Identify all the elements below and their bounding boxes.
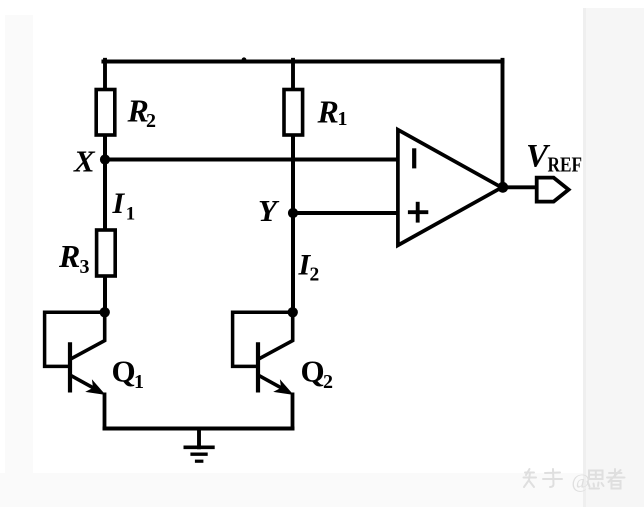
wire top rail xyxy=(103,60,502,64)
label Q1 xyxy=(112,354,145,394)
label I1 xyxy=(112,187,136,225)
transistor Q2 xyxy=(233,311,293,430)
Q1 emitter arrowhead xyxy=(88,382,104,394)
Q1 collector lead xyxy=(71,311,105,359)
wire bottom emitter rail xyxy=(105,427,293,431)
svg-text:Q: Q xyxy=(301,354,325,389)
svg-text:@: @ xyxy=(572,471,590,493)
VREF output pin symbol xyxy=(537,178,569,202)
svg-text:2: 2 xyxy=(323,371,333,393)
op-amp inverting input minus bar xyxy=(412,148,416,168)
wire R2 top stub xyxy=(103,60,107,91)
svg-text:3: 3 xyxy=(80,256,90,278)
wire R1 bottom through node Y to Q2 collector xyxy=(291,134,295,313)
svg-text:1: 1 xyxy=(134,371,144,393)
watermark zhihu xyxy=(524,469,625,489)
Q1 emitter lead xyxy=(71,376,100,392)
svg-text:1: 1 xyxy=(338,108,348,130)
op-amp non-inverting input plus sign xyxy=(408,202,428,223)
label R3 xyxy=(58,238,90,278)
node Q1 collector junction dot xyxy=(100,307,110,317)
wire feedback from rail to op-amp output xyxy=(501,60,505,188)
node junction dot on top rail xyxy=(242,57,247,62)
Q2 emitter lead xyxy=(259,376,288,392)
Q1 base bar xyxy=(68,342,72,392)
resistor R3 xyxy=(97,230,116,276)
svg-text:REF: REF xyxy=(548,153,583,177)
Q2 emitter arrowhead xyxy=(276,382,292,394)
svg-text:Q: Q xyxy=(112,354,136,389)
node op-amp output junction dot xyxy=(497,182,508,193)
Q2 base bar xyxy=(256,342,260,392)
Q2 emitter vertical xyxy=(291,393,295,431)
svg-text:1: 1 xyxy=(126,204,136,225)
wire R1 top stub xyxy=(291,60,295,91)
Q1 emitter vertical xyxy=(103,393,107,431)
label Q2 xyxy=(301,354,334,394)
node X junction dot xyxy=(100,154,110,164)
resistor R2 xyxy=(96,90,115,136)
ground xyxy=(184,447,215,461)
svg-text:Y: Y xyxy=(258,193,280,228)
svg-text:2: 2 xyxy=(146,110,156,132)
svg-text:R: R xyxy=(317,94,339,130)
wire op-amp output to VREF pin xyxy=(503,185,538,189)
wire R2 bottom through node X to R3 xyxy=(103,134,107,231)
node Y junction dot xyxy=(288,208,298,218)
Q2 collector lead xyxy=(259,311,293,359)
node Q2 collector junction dot xyxy=(288,307,298,317)
svg-text:I: I xyxy=(112,187,126,220)
wire R3 bottom to Q1 collector xyxy=(103,275,107,313)
wire node Y row to op-amp non-inverting input xyxy=(293,211,400,215)
svg-text:X: X xyxy=(73,144,96,179)
transistor Q1 xyxy=(45,311,105,430)
wire node X row to op-amp inverting input xyxy=(105,158,400,162)
resistor R1 xyxy=(284,90,303,136)
label R2 xyxy=(127,93,157,132)
op-amp U1 xyxy=(398,130,502,246)
label VREF xyxy=(526,138,582,176)
label R1 xyxy=(317,94,348,130)
Q1 base feedback loop wire xyxy=(45,312,103,366)
svg-text:2: 2 xyxy=(310,265,320,286)
wire ground stub xyxy=(197,429,201,448)
Q2 base feedback loop wire xyxy=(233,312,291,366)
label I2 xyxy=(298,248,320,285)
svg-text:R: R xyxy=(58,238,80,274)
